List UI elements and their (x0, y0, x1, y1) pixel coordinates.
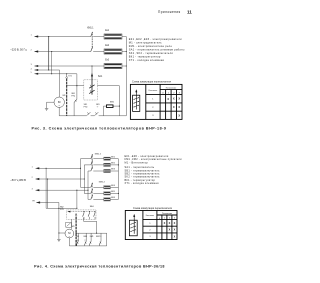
wire phase B (36, 178, 85, 180)
table2 switch icon (129, 215, 137, 236)
contact KM1.1a (91, 32, 93, 37)
branch KM1 contact (90, 233, 92, 241)
wire phase C (36, 189, 88, 191)
svg-text:Х: Х (173, 105, 175, 109)
svg-text:4: 4 (31, 68, 32, 70)
wire motor feed (71, 219, 73, 229)
terminal XT1 circle (66, 77, 68, 79)
svg-text:КМ1 - электромагнитное реле: КМ1 - электромагнитное реле (129, 44, 173, 48)
svg-text:ЕК1 ,ЕК2 ,ЕК3 - электронагрев: ЕК1 ,ЕК2 ,ЕК3 - электронагреватели (129, 37, 182, 41)
arrowhead SA1 wiper (91, 73, 93, 77)
junction motor-PE (58, 232, 59, 233)
svg-text:Х: Х (178, 97, 180, 101)
junction riser2-phaseB (84, 178, 85, 179)
junction bus1-L4 (48, 69, 49, 70)
coil KM1 wires (104, 106, 107, 116)
wire thick drop fig4 (75, 214, 77, 246)
svg-text:М1 - электродвигатель: М1 - электродвигатель (129, 41, 162, 45)
junction L5 drop (66, 73, 67, 74)
junction bus2-phaseB (47, 178, 48, 179)
arrowhead PE (36, 201, 40, 203)
wire bottom (59, 115, 86, 117)
ground at motor (45, 107, 48, 110)
table1 frame (130, 84, 182, 119)
wire motor bottom (58, 107, 60, 115)
svg-text:ХТ1 - колодка клеммная: ХТ1 - колодка клеммная (125, 182, 160, 185)
wire heater2 right (122, 51, 126, 53)
junction coil KM1 output (119, 106, 120, 107)
contact KM1.2 poles (91, 154, 93, 159)
arrowhead input L4 (34, 69, 38, 71)
svg-text:ВК1: ВК1 (84, 236, 88, 238)
group2 row wires (81, 186, 91, 188)
junction bus2-L2 (51, 51, 52, 52)
svg-text:КМ2.1: КМ2.1 (96, 236, 101, 238)
svg-text:~: ~ (58, 104, 60, 108)
heater right wires g1 (110, 158, 118, 160)
branch SK1 contact (77, 233, 79, 241)
wire number labels (31, 35, 32, 75)
svg-text:КМ2.2: КМ2.2 (99, 182, 106, 184)
svg-text:ХТ1 - колодка клеммная: ХТ1 - колодка клеммная (129, 58, 165, 62)
heaters fig4 group1 (104, 156, 116, 160)
motor M1 circle (54, 97, 64, 107)
wire riser 2 (83, 165, 85, 194)
wire bus2 (51, 52, 53, 74)
contact SA1a (89, 85, 94, 88)
wire L5 input line (35, 73, 77, 75)
terminal circle fig4 (75, 214, 77, 216)
svg-text:3: 3 (32, 188, 33, 190)
control labels (76, 236, 102, 242)
svg-text:Контакты: Контакты (149, 90, 158, 92)
wire riser 3 (87, 171, 89, 199)
wire L3 input line (35, 65, 105, 67)
svg-text:11: 11 (187, 10, 192, 15)
wire right return (117, 159, 119, 200)
svg-text:Контакты: Контакты (146, 215, 155, 217)
junction EK2 return (126, 51, 127, 52)
svg-text:1: 1 (32, 166, 33, 168)
arrowhead phase A (35, 167, 39, 169)
heater EK3 (104, 60, 122, 69)
wire L1 input line (35, 36, 91, 38)
arrowhead phase C (35, 189, 39, 191)
arrowhead input L1 (34, 35, 38, 37)
coil KM1 (107, 105, 114, 108)
contact KM2.2 poles (91, 183, 93, 188)
svg-text:~50 Гц 380 В: ~50 Гц 380 В (10, 178, 26, 182)
svg-text:Положение: Положение (162, 213, 172, 215)
arrowhead SA2 wiper (67, 211, 70, 213)
wire right control drop (106, 233, 108, 246)
linkage KM2.2 dashed (91, 183, 93, 198)
wire phase A (36, 167, 80, 169)
svg-text:М1 - Вентилятор: М1 - Вентилятор (125, 161, 149, 164)
wire heater3 right (122, 65, 126, 67)
wire bus1 (48, 37, 50, 71)
svg-text:Х: Х (167, 97, 169, 101)
wire SA1 wiper riser (91, 66, 93, 75)
svg-text:Х: Х (173, 97, 175, 101)
motor M1 circle (65, 229, 74, 238)
wire terminal to SA1 (67, 85, 84, 87)
svg-text:2: 2 (31, 50, 32, 52)
wire motor bottom (68, 238, 70, 246)
arrowhead input L3 (34, 65, 38, 67)
box VK1 (66, 222, 71, 227)
junction bus2-L5 (51, 73, 52, 74)
linkage SA2 dashed (68, 211, 95, 213)
svg-text:КМ1: КМ1 (90, 236, 94, 238)
switch SA1 wiper shaft (91, 76, 93, 95)
contact SA1b (89, 90, 94, 93)
svg-text:SK1 ,SK2 - термовыключатели: SK1 ,SK2 - термовыключатели (129, 51, 174, 55)
svg-text:SA1 - переключатель режимов ра: SA1 - переключатель режимов работы (129, 48, 185, 52)
wire L2 input line (35, 51, 91, 53)
wire control rail (76, 232, 107, 234)
wire junction H (46, 207, 77, 209)
svg-text:~220 В, 50 Гц: ~220 В, 50 Гц (10, 47, 27, 51)
wire bottom collector (69, 245, 106, 247)
junction SA2 output-rail (96, 233, 97, 234)
junction phaseC drop (76, 190, 77, 191)
heater EK2 (104, 45, 122, 54)
contact SB1 (74, 99, 77, 102)
junction rail-left (76, 233, 77, 234)
svg-text:М1: М1 (72, 226, 75, 228)
junction EK5 return (118, 164, 119, 165)
svg-text:ВК1 - терморегулятор: ВК1 - терморегулятор (129, 55, 161, 59)
wire L4 input line (35, 70, 60, 97)
wire bus1 (45, 168, 47, 208)
svg-text:ХТ1: ХТ1 (68, 76, 71, 78)
svg-text:Рис. 3. Схема электрическая те: Рис. 3. Схема электрическая тепловентиля… (31, 126, 166, 130)
wire phase C drop (76, 190, 78, 208)
wire motor left (59, 232, 65, 234)
junction PE-H (58, 208, 59, 209)
junction EK return g2 (118, 193, 119, 194)
svg-text:SA1: SA1 (98, 75, 103, 78)
svg-text:5: 5 (31, 72, 32, 74)
junction XT1 node (66, 85, 67, 86)
linkage KM1.2 dashed (91, 155, 93, 170)
svg-text:Приложения: Приложения (158, 10, 181, 14)
junction SA2 contact b (89, 211, 90, 212)
contact SA2a (83, 212, 85, 213)
junction bus1-phaseA (46, 168, 47, 169)
wire bus2 (47, 179, 49, 208)
group1 row wires (81, 158, 91, 160)
svg-text:SK1: SK1 (76, 236, 80, 238)
svg-text:1: 1 (31, 35, 32, 37)
wire riser 1 (80, 159, 82, 188)
svg-text:КМ1.1: КМ1.1 (87, 28, 94, 30)
svg-text:3: 3 (31, 64, 32, 66)
contact SK2 (94, 112, 98, 116)
linkage dashed (91, 32, 93, 48)
wire thick neutral drop (66, 79, 68, 116)
junction EK3 return (126, 65, 127, 66)
svg-text:Схема коммутации переключателя: Схема коммутации переключателя (132, 80, 172, 83)
wire right return (125, 37, 127, 116)
table2 frame (125, 211, 177, 240)
svg-text:Х: Х (178, 113, 180, 117)
heaters fig4 group2 (104, 185, 116, 189)
svg-text:Схема коммутации переключателя: Схема коммутации переключателя (133, 207, 173, 210)
junction node SA1 riser (91, 65, 92, 66)
junction bus1-L1 (48, 36, 49, 37)
wire SB1 branch (76, 74, 78, 100)
heater right wires g2 (110, 186, 118, 188)
switch SA1 box dashed (84, 80, 98, 100)
legend fig4 (125, 155, 183, 185)
svg-text:SA2: SA2 (60, 206, 64, 209)
branch VK1 contact (85, 233, 87, 241)
ground PE (57, 238, 60, 241)
wire motor left (47, 102, 54, 107)
svg-text:2: 2 (32, 177, 33, 179)
contact SK1 (86, 112, 90, 116)
switch SA2 box dashed (67, 210, 96, 219)
junction SA2 contact c (95, 211, 96, 212)
junction riser3-phaseC (87, 190, 88, 191)
junction riser1-phaseA (80, 168, 81, 169)
table2 X marks (164, 222, 176, 238)
heater EK1 (104, 30, 122, 39)
table1 X marks (167, 97, 180, 118)
svg-text:Х: Х (178, 105, 180, 109)
arrowhead input L5 (34, 73, 38, 75)
svg-text:Положение: Положение (166, 88, 177, 90)
contact SA2b (89, 212, 91, 213)
arrowhead phase B (35, 178, 39, 180)
legend fig3 (129, 37, 185, 62)
branch KM2.1 contact (100, 233, 102, 241)
junction SB1 node (76, 85, 77, 86)
junction SA2 contact a (84, 211, 85, 212)
contact KM1.1b (91, 47, 93, 52)
wire heater1 right (122, 36, 126, 38)
wire SA2 output (84, 218, 97, 234)
svg-text:Рис. 4. Схема электрическая те: Рис. 4. Схема электрическая тепловентиля… (34, 264, 165, 268)
table1 switch icon (133, 90, 140, 111)
arrowhead input L2 (34, 50, 38, 52)
contact SA2c (94, 212, 96, 213)
wire SA1 to coil branch (97, 86, 119, 116)
phase labels (31, 166, 34, 190)
junction H-drop (76, 208, 77, 209)
svg-text:КМ1.2: КМ1.2 (95, 154, 102, 156)
wire PE (36, 203, 59, 239)
